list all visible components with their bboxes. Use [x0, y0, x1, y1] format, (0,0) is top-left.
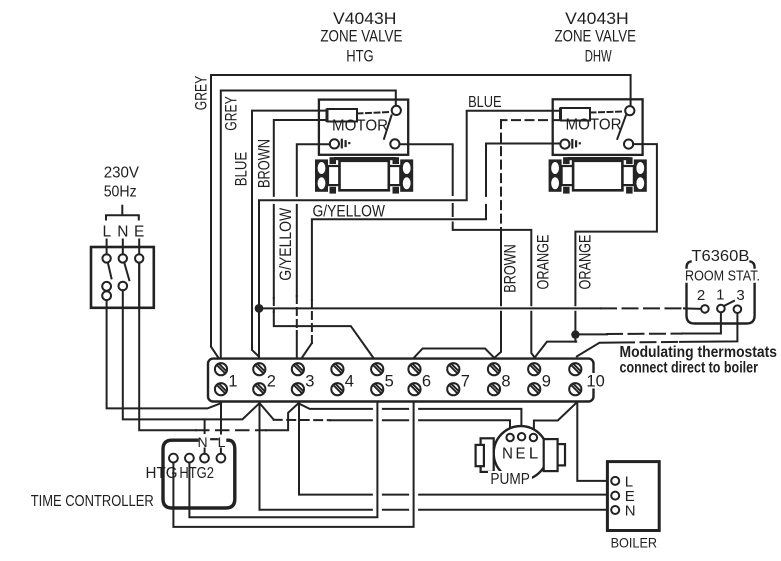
- svg-text:4: 4: [345, 373, 354, 391]
- boiler terminals: [611, 477, 619, 514]
- svg-text:7: 7: [461, 373, 470, 391]
- svg-text:BLUE: BLUE: [232, 152, 251, 187]
- svg-text:9: 9: [542, 373, 551, 391]
- svg-text:N: N: [625, 503, 636, 520]
- wire terminal 6 to time controller HTG: [173, 403, 413, 527]
- svg-text:PUMP: PUMP: [490, 471, 530, 488]
- wire terminal 10 to pump L: [534, 403, 577, 433]
- wire room stat 2 line (dashed): [264, 307, 701, 309]
- terminal 10 screws: [569, 363, 581, 395]
- svg-text:T6360B: T6360B: [691, 248, 749, 265]
- header zone valve HTG: [320, 10, 402, 66]
- motor DHW: [560, 108, 590, 121]
- wire stub L above box: [106, 240, 108, 255]
- boiler labels L E N: [625, 474, 636, 520]
- time controller labels N L: [197, 434, 225, 450]
- terminal 1 screws: [215, 363, 227, 395]
- wire stub E above box: [138, 240, 140, 255]
- wire BLUE DHW (motor to terminal 2 via long route): [259, 111, 561, 357]
- svg-text:L: L: [529, 446, 539, 463]
- wire GREY outer (terminal 1 to DHW valve): [211, 75, 631, 358]
- svg-text:TIME CONTROLLER: TIME CONTROLLER: [31, 493, 154, 510]
- wire BLUE HTG (terminal 2 to HTG motor): [252, 111, 327, 357]
- svg-text:10: 10: [586, 373, 604, 391]
- header zone valve DHW: [555, 10, 637, 66]
- switch DHW: [591, 106, 635, 149]
- wire branch mains N to time controller N: [204, 419, 206, 433]
- terminal strip outline: [208, 359, 594, 402]
- wire ORANGE HTG (switch to terminal 9, partly dashed): [400, 144, 535, 357]
- svg-text:connect direct to boiler: connect direct to boiler: [620, 359, 759, 376]
- svg-text:L: L: [102, 224, 111, 241]
- valve body HTG: [315, 157, 413, 194]
- terminal 7 screws: [447, 363, 459, 395]
- boiler box: [607, 462, 659, 531]
- terminal 9 screws: [528, 363, 540, 395]
- svg-text:BOILER: BOILER: [611, 534, 658, 550]
- svg-text:8: 8: [501, 373, 510, 391]
- terminal 4 screws: [331, 363, 343, 395]
- svg-text:50Hz: 50Hz: [104, 184, 137, 201]
- svg-text:3: 3: [736, 287, 744, 304]
- wire G/YELLOW HTG aux to terminal 3 (partly dashed): [297, 144, 330, 296]
- wire GREY inner (terminal 1 to HTG valve): [221, 91, 396, 359]
- time controller terminals: [169, 454, 225, 463]
- aux contact HTG: [330, 139, 351, 148]
- wire terminal 3 to boiler E: [299, 403, 612, 495]
- wire terminal 5 to time controller HTG2: [189, 403, 377, 517]
- svg-text:V4043H: V4043H: [565, 10, 629, 28]
- svg-text:ORANGE: ORANGE: [576, 235, 595, 290]
- svg-text:V4043H: V4043H: [333, 10, 397, 28]
- room stat box: [687, 262, 755, 324]
- wire mains E to terminal 3 (partly dashed): [139, 263, 196, 431]
- svg-text:E: E: [134, 224, 144, 241]
- pump flanges: [476, 438, 565, 472]
- svg-text:230V: 230V: [104, 165, 140, 182]
- wire BROWN DHW (motor to terminal 8, dashed): [495, 120, 561, 357]
- room stat terminal labels 2 1 3: [697, 287, 745, 305]
- label PUMP: [488, 471, 532, 488]
- wire time controller N stub: [205, 449, 221, 454]
- valve body DHW: [549, 157, 647, 194]
- wire link terminal 6 to terminal 8: [414, 349, 493, 358]
- wire terminal 9 to junction tee (y=341.6): [536, 342, 577, 357]
- svg-text:ROOM STAT.: ROOM STAT.: [685, 269, 760, 285]
- wire terminal 1 to time controller L: [220, 403, 222, 434]
- svg-text:ZONE VALVE: ZONE VALVE: [320, 28, 402, 46]
- wire room stat 1 line (dashed): [580, 313, 721, 334]
- svg-text:MOTOR: MOTOR: [566, 117, 622, 134]
- mains supply box: [91, 247, 154, 308]
- room stat labels: [685, 248, 760, 285]
- svg-text:1: 1: [716, 287, 724, 304]
- svg-text:N: N: [197, 434, 207, 450]
- svg-text:G/YELLOW: G/YELLOW: [276, 208, 295, 281]
- terminal numbers: [228, 373, 604, 391]
- svg-text:HTG: HTG: [346, 48, 374, 66]
- aux contact DHW: [560, 140, 581, 149]
- pump terminals: [506, 433, 537, 441]
- wire G/YELLOW long (terminal 3 to DHW aux, partly dashed): [303, 343, 312, 357]
- mains switch L: [102, 254, 111, 300]
- svg-text:ZONE VALVE: ZONE VALVE: [555, 28, 637, 46]
- svg-text:2: 2: [697, 287, 705, 304]
- svg-text:DHW: DHW: [585, 48, 612, 66]
- svg-text:GREY: GREY: [192, 76, 211, 111]
- junction dot terminal 10 line: [571, 330, 579, 338]
- terminal 8 screws: [488, 363, 500, 395]
- svg-text:E: E: [516, 446, 526, 463]
- wire stub N above box: [122, 240, 124, 255]
- wire terminal 2 to boiler N: [260, 403, 613, 510]
- wire BROWN HTG (terminal 5 to HTG motor, partly dashed): [274, 120, 327, 298]
- terminal 3 screws: [292, 363, 304, 395]
- wire mains N to terminal 2: [123, 290, 259, 419]
- svg-text:3: 3: [305, 373, 314, 391]
- zone valve HTG box: [319, 100, 408, 155]
- svg-text:BLUE: BLUE: [468, 94, 502, 111]
- room stat terminals and switch: [701, 301, 741, 313]
- svg-text:N: N: [502, 446, 513, 463]
- svg-text:1: 1: [228, 373, 237, 391]
- terminal 5 screws: [371, 363, 383, 395]
- terminal 2 screws: [253, 363, 265, 395]
- svg-text:L: L: [218, 434, 226, 450]
- svg-text:ORANGE: ORANGE: [534, 235, 553, 290]
- pump circle: [494, 426, 548, 480]
- svg-text:MOTOR: MOTOR: [332, 118, 388, 135]
- label 230V 50Hz: [104, 165, 140, 201]
- wire terminal 3 diagonal to pump E: [299, 403, 522, 432]
- svg-text:GREY: GREY: [222, 96, 241, 131]
- wire terminal 2 diagonal to pump N (partly dashed): [260, 403, 510, 433]
- mains earth E through-line: [135, 254, 143, 308]
- svg-text:5: 5: [385, 373, 394, 391]
- pump labels N E L: [502, 446, 538, 463]
- motor HTG: [327, 109, 358, 122]
- mains switch N: [119, 254, 130, 290]
- time controller labels HTG HTG2: [146, 465, 215, 482]
- svg-text:6: 6: [422, 373, 431, 391]
- svg-text:2: 2: [267, 373, 276, 391]
- wire terminal 10 to boiler L: [577, 403, 612, 481]
- svg-text:BROWN: BROWN: [501, 244, 520, 293]
- wire ORANGE DHW (switch to terminal 10): [575, 144, 657, 342]
- junction dot terminal 2 line: [255, 304, 264, 313]
- svg-text:BROWN: BROWN: [255, 139, 274, 188]
- wire mains L to terminal 1: [107, 301, 221, 408]
- svg-text:N: N: [117, 224, 128, 241]
- switch HTG: [358, 106, 401, 149]
- time controller box: [163, 440, 235, 508]
- svg-text:HTG: HTG: [146, 465, 178, 482]
- terminal 6 screws: [408, 363, 420, 395]
- svg-text:G/YELLOW: G/YELLOW: [313, 202, 386, 221]
- zone valve DHW box: [553, 99, 643, 155]
- wire room stat 3 line from terminal 10 (dashed): [577, 314, 738, 357]
- svg-text:Modulating thermostats: Modulating thermostats: [620, 344, 778, 361]
- note modulating thermostats: [620, 344, 778, 377]
- mains bracket: [106, 206, 139, 220]
- mains terminal labels L N E: [102, 224, 144, 241]
- svg-text:HTG2: HTG2: [179, 465, 214, 482]
